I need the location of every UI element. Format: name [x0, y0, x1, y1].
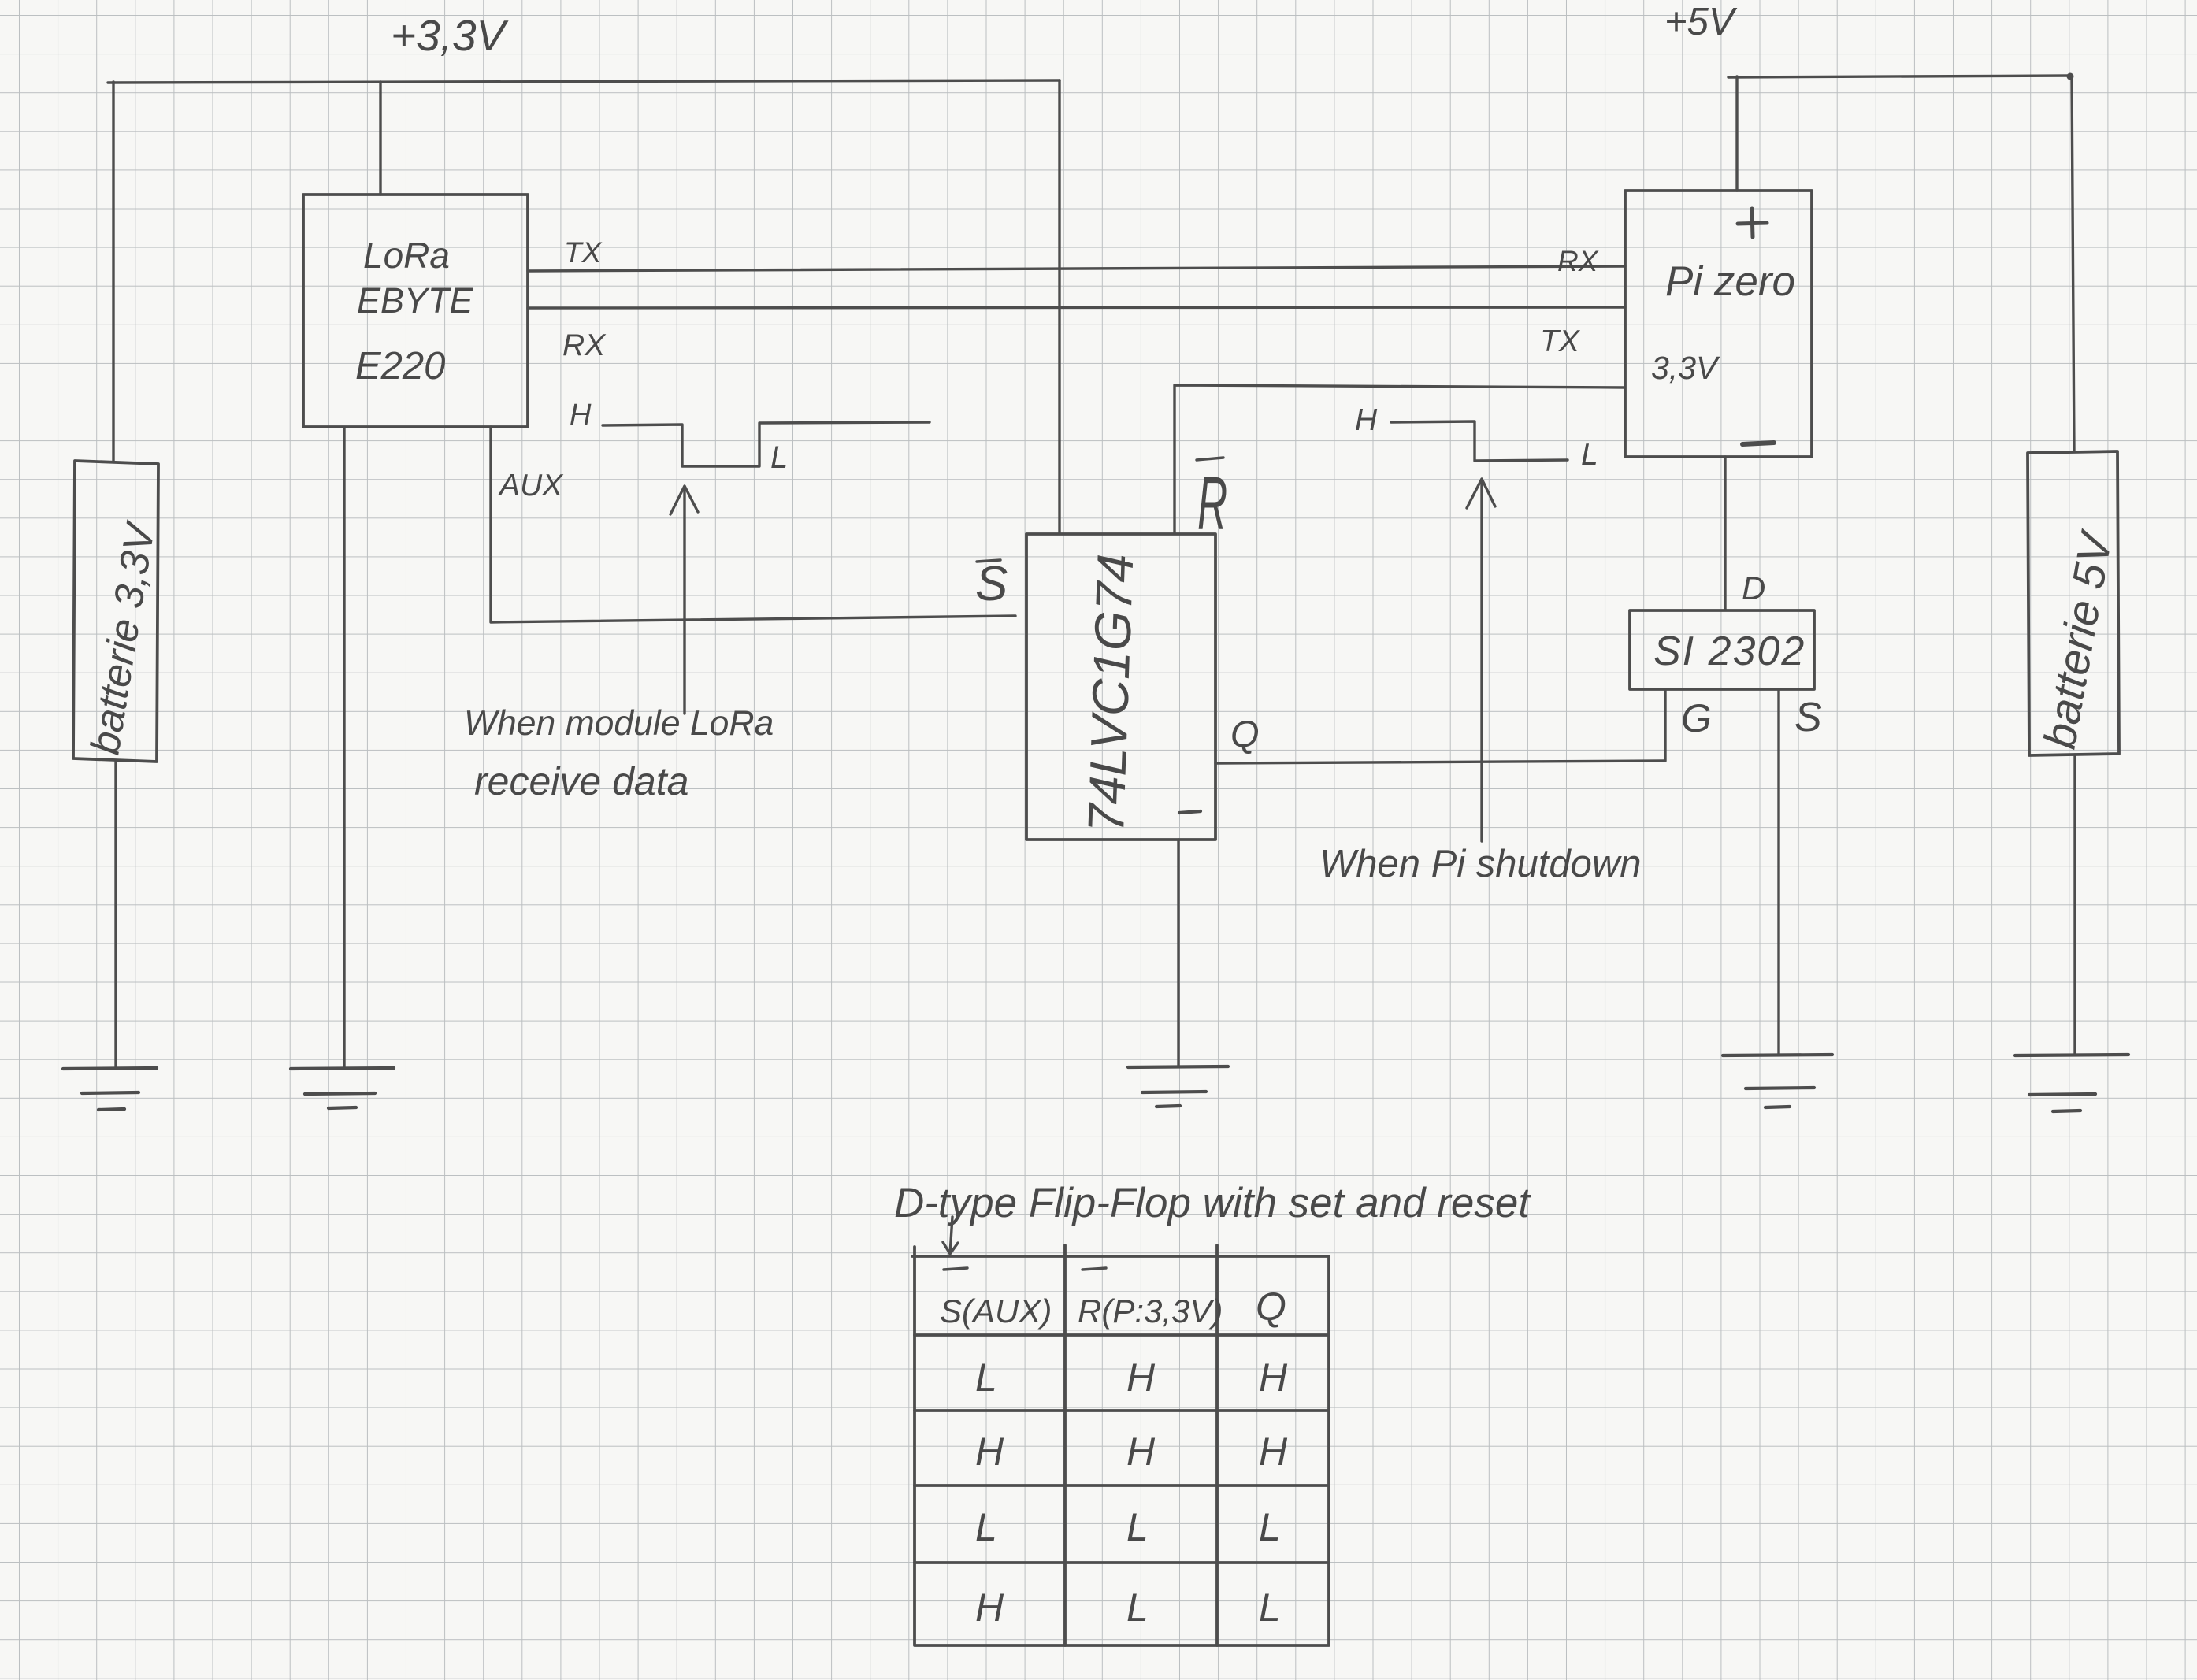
svg-text:E220: E220	[355, 345, 445, 388]
wire +3.3V rail	[108, 80, 1060, 83]
table row 2 H H H	[975, 1430, 1288, 1474]
svg-text:74LVC1G74: 74LVC1G74	[1077, 553, 1144, 834]
table row 3 L L L	[975, 1505, 1281, 1549]
pin Q label	[1230, 713, 1260, 755]
pin G label (SI2302)	[1681, 696, 1712, 740]
arrow annotation AUX event	[670, 486, 698, 714]
truth table row lines	[915, 1335, 1329, 1563]
waveform Pi 3.3V falling	[1391, 421, 1568, 461]
flip-flop U2 74LVC1G74 box	[1026, 534, 1215, 840]
module U1 LoRa EBYTE E220 box	[303, 195, 528, 427]
wire flip-flop GND down	[1177, 840, 1179, 1066]
wire LoRa RX to Pi TX	[528, 307, 1625, 308]
node L label (AUX waveform)	[770, 440, 788, 475]
svg-text:H: H	[570, 399, 592, 432]
wire R-bar to Pi 3.3V	[1175, 385, 1624, 533]
wire Pi minus to SI2302 drain	[1724, 457, 1726, 610]
svg-text:L: L	[1259, 1585, 1281, 1630]
svg-text:receive data: receive data	[474, 759, 688, 803]
svg-text:Q: Q	[1256, 1285, 1286, 1329]
node 5V rail end dot	[2067, 73, 2074, 80]
svg-text:H: H	[1355, 403, 1378, 437]
wire AUX to flip-flop S	[491, 427, 1015, 622]
node L label (Pi waveform)	[1581, 438, 1598, 472]
svg-text:H: H	[1259, 1355, 1288, 1400]
wire battery5 to ground	[2073, 755, 2076, 1054]
net +5V label	[1664, 1, 1738, 43]
svg-text:S(AUX): S(AUX)	[940, 1292, 1052, 1330]
pin RX label (LoRa)	[562, 328, 607, 362]
ground LoRa	[291, 1068, 394, 1108]
svg-text:AUX: AUX	[498, 469, 564, 503]
svg-text:H: H	[1126, 1430, 1156, 1474]
svg-text:SI 2302: SI 2302	[1653, 629, 1805, 674]
svg-text:H: H	[1126, 1355, 1156, 1400]
table row 1 L H H	[975, 1355, 1288, 1400]
wire battery3.3 to ground	[114, 762, 117, 1068]
module U3 Pi zero box	[1625, 191, 1812, 457]
table header S-bar(AUX)	[940, 1292, 1052, 1330]
svg-text:H: H	[975, 1585, 1004, 1630]
svg-text:R: R	[1197, 462, 1227, 546]
ground battery3.3	[63, 1068, 157, 1110]
svg-text:L: L	[975, 1355, 997, 1400]
svg-text:L: L	[770, 440, 788, 475]
title D-type Flip-Flop with set and reset	[894, 1180, 1531, 1226]
net +3,3V label	[391, 11, 509, 60]
note when Pi shutdown	[1319, 843, 1642, 885]
svg-text:TX: TX	[564, 236, 603, 269]
pin TX label (LoRa)	[564, 236, 603, 269]
svg-text:EBYTE: EBYTE	[357, 280, 474, 321]
table header Q	[1256, 1285, 1286, 1329]
svg-text:H: H	[1259, 1430, 1288, 1474]
battery BT2 5V box	[2028, 451, 2119, 755]
wire Pi plus up to 5V rail	[1735, 76, 1738, 191]
truth table frame	[912, 1247, 1329, 1645]
svg-text:+5V: +5V	[1664, 1, 1738, 43]
wire LoRa TX to Pi RX	[528, 266, 1625, 271]
wire LoRa VCC drop	[379, 82, 381, 195]
svg-text:H: H	[975, 1430, 1004, 1474]
svg-text:3,3V: 3,3V	[1651, 350, 1720, 386]
svg-text:D: D	[1742, 569, 1765, 606]
table row 4 H L L	[975, 1585, 1281, 1630]
svg-text:R(P:3,3V): R(P:3,3V)	[1078, 1292, 1223, 1330]
svg-text:When module LoRa: When module LoRa	[464, 704, 774, 743]
pin + label (Pi)	[1738, 209, 1767, 237]
svg-text:L: L	[1126, 1505, 1149, 1549]
svg-text:S: S	[1794, 695, 1822, 740]
node H label (Pi waveform)	[1355, 403, 1378, 437]
svg-text:G: G	[1681, 696, 1712, 740]
svg-text:S: S	[975, 557, 1008, 611]
pin 3,3V label (Pi)	[1651, 350, 1720, 386]
wire SI2302 source to ground	[1777, 690, 1779, 1054]
arrow small under title	[943, 1217, 958, 1254]
wire LoRa GND down	[343, 428, 345, 1068]
svg-text:When Pi shutdown: When Pi shutdown	[1319, 843, 1642, 885]
wire gate pin down from SI2302	[1664, 690, 1666, 761]
svg-text:L: L	[1581, 438, 1598, 472]
ground battery5	[2015, 1055, 2128, 1111]
svg-text:Pi zero: Pi zero	[1665, 258, 1795, 305]
arrow annotation Pi shutdown event	[1467, 479, 1495, 841]
wire Q to SI2302 gate	[1215, 761, 1664, 763]
pin D-input tick (flip-flop)	[1179, 811, 1201, 813]
svg-text:D-type Flip-Flop with set and: D-type Flip-Flop with set and reset	[894, 1180, 1531, 1226]
wire battery3.3 top drop	[112, 82, 114, 462]
svg-text:RX: RX	[562, 328, 607, 362]
ground flip-flop	[1128, 1066, 1228, 1107]
svg-text:L: L	[1126, 1585, 1149, 1630]
svg-text:Q: Q	[1230, 713, 1260, 755]
transistor Q1 SI2302 box	[1630, 610, 1814, 689]
pin D label (SI2302)	[1742, 569, 1765, 606]
truth table column lines	[1065, 1245, 1217, 1645]
wire flip-flop VCC drop	[1058, 80, 1060, 533]
svg-text:L: L	[1259, 1505, 1281, 1549]
svg-text:L: L	[975, 1505, 997, 1549]
table header R-bar(P:3,3V)	[1078, 1292, 1223, 1330]
battery BT1 3.3V box	[73, 461, 158, 762]
pin TX label (Pi)	[1540, 325, 1581, 358]
pin RX label (Pi)	[1557, 245, 1599, 277]
wire +5V rail	[1728, 76, 2070, 77]
pin - label (Pi)	[1742, 443, 1774, 444]
node H label (AUX waveform)	[570, 399, 592, 432]
waveform AUX pulse	[603, 422, 930, 466]
ground SI2302 source	[1723, 1055, 1832, 1107]
svg-text:RX: RX	[1557, 245, 1599, 277]
note when module LoRa receive data	[464, 704, 774, 803]
pin AUX label	[498, 469, 564, 503]
svg-text:LoRa: LoRa	[363, 235, 450, 276]
svg-text:+3,3V: +3,3V	[391, 11, 509, 60]
svg-text:TX: TX	[1540, 325, 1581, 358]
pin R-bar label	[1197, 462, 1227, 546]
wire 5V rail down to battery 5V	[2072, 77, 2074, 451]
pin S label (SI2302)	[1794, 695, 1822, 740]
pin S-bar label	[975, 557, 1008, 611]
